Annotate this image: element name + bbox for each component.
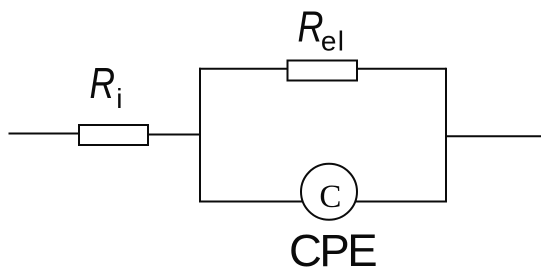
svg-text:C: C	[319, 179, 341, 215]
svg-text:CPE: CPE	[289, 225, 376, 276]
svg-text:e: e	[321, 26, 337, 57]
svg-text:R: R	[90, 59, 116, 108]
label R_el	[298, 3, 345, 57]
wire left lead	[9, 133, 81, 135]
wire bottom branch	[199, 201, 446, 203]
resistor R1 (R_i) body	[79, 125, 148, 145]
wire right lead	[446, 135, 541, 137]
svg-text:l: l	[338, 26, 344, 57]
wire left vertical branch	[199, 68, 201, 203]
CPE element circle	[301, 164, 357, 220]
wire resistor to left node	[148, 134, 200, 136]
label R_i	[90, 59, 123, 114]
svg-text:i: i	[116, 83, 122, 114]
wire right vertical branch	[445, 68, 447, 203]
resistor R2 (R_el) body	[288, 61, 358, 81]
wire top branch	[199, 68, 446, 70]
svg-text:R: R	[298, 3, 324, 52]
